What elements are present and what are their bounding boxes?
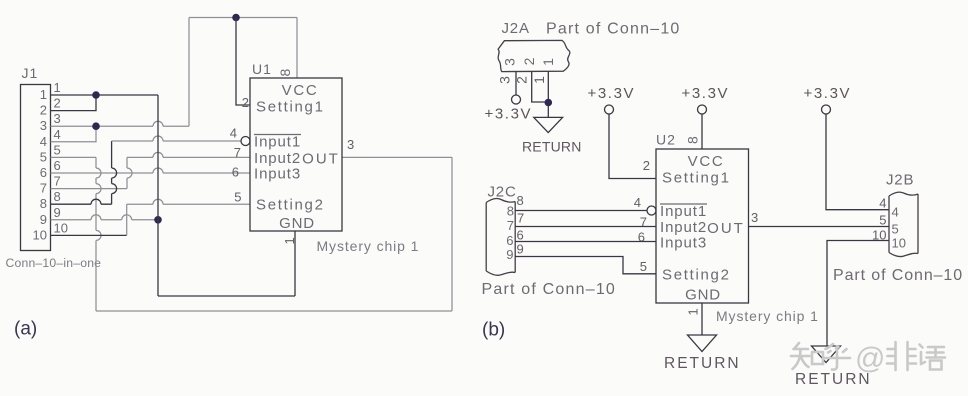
wire +3.3 net riser x=189 xyxy=(188,18,190,127)
svg-text:10: 10 xyxy=(54,220,68,235)
chip U1 pin name Input3 xyxy=(254,166,301,183)
ground triangle RETURN (J2B) xyxy=(812,346,841,363)
J2B value label Part of Conn-10 xyxy=(833,267,963,284)
wire J2A.1 stub down xyxy=(547,72,549,118)
pin number 2 (U2) xyxy=(643,158,650,173)
svg-text:Setting1: Setting1 xyxy=(256,99,325,116)
svg-text:9: 9 xyxy=(506,247,513,262)
svg-text:5: 5 xyxy=(54,142,61,157)
svg-text:2: 2 xyxy=(40,103,47,118)
J2C wire number labels xyxy=(517,193,525,257)
chip U2 pin name Input2 xyxy=(660,219,707,236)
svg-text:1: 1 xyxy=(40,87,47,102)
svg-text:5: 5 xyxy=(892,222,899,237)
connector J2B body xyxy=(889,192,918,256)
chip U2 pin name VCC xyxy=(688,153,725,170)
wire J1.9 to GND net (hops at 96,127) xyxy=(51,215,159,220)
svg-text:J2B: J2B xyxy=(886,172,914,189)
wire GND net vertical x=158 xyxy=(157,95,159,296)
ground label RETURN (U2) xyxy=(664,355,741,372)
chip U1 pin name Input1 with overline xyxy=(254,134,301,151)
junction dot top rail xyxy=(232,14,240,22)
wire Setting1 drop to U1 pin 2 xyxy=(236,18,250,106)
svg-text:6: 6 xyxy=(517,228,524,243)
svg-text:OUT: OUT xyxy=(707,220,745,237)
svg-text:8: 8 xyxy=(517,193,524,208)
svg-text:6: 6 xyxy=(638,230,645,245)
svg-text:8: 8 xyxy=(40,196,47,211)
pin number 5 (U2) xyxy=(640,259,647,274)
svg-text:3: 3 xyxy=(54,111,61,126)
wire Setting2 feed to U1 pin 5 (hop at 158) xyxy=(127,199,250,204)
svg-text:1: 1 xyxy=(686,308,701,315)
svg-text:Input1: Input1 xyxy=(254,134,301,151)
svg-text:9: 9 xyxy=(54,205,61,220)
svg-text:9: 9 xyxy=(517,242,524,257)
chip U1 refdes xyxy=(252,61,272,77)
chip U1 value label Mystery chip 1 xyxy=(317,238,420,254)
svg-text:10: 10 xyxy=(33,227,47,242)
svg-text:6: 6 xyxy=(54,158,61,173)
svg-text:(b): (b) xyxy=(482,320,505,341)
svg-text:3: 3 xyxy=(347,137,354,152)
wire GND net bottom run to U1 GND xyxy=(158,231,295,296)
wire top rail y=17.5 xyxy=(189,17,297,19)
svg-text:VCC: VCC xyxy=(688,153,725,170)
svg-text:Input2: Input2 xyxy=(660,219,707,236)
power label +3.3V (Setting1) xyxy=(588,85,636,102)
figure label (b) xyxy=(482,320,505,341)
svg-text:4: 4 xyxy=(892,205,899,220)
pin number 1 (U2 GND, rotated) xyxy=(686,308,701,315)
J2C value label Part of Conn-10 xyxy=(482,281,617,298)
svg-text:10: 10 xyxy=(892,236,906,251)
wire J2C.8 to U2 pin 4 bubble xyxy=(515,210,647,212)
svg-text:@: @ xyxy=(855,342,885,375)
pin number 5 (U1) xyxy=(234,190,241,205)
wire J1.5 to OUT net xyxy=(51,156,97,158)
J2A pin number labels 3,2,1 (rotated) xyxy=(497,76,548,84)
wire Input1 feed to U1 pin 4 bubble (hop at 158) xyxy=(112,136,241,141)
connector J1 internal pin numbers 1-10 xyxy=(33,87,47,242)
pin number 6 (U2) xyxy=(638,230,645,245)
svg-text:Mystery chip 1: Mystery chip 1 xyxy=(317,238,420,254)
wire J2A.2 stub down and right xyxy=(532,72,549,103)
wire Setting2 riser x=126.7 xyxy=(126,204,128,235)
connector J2A body xyxy=(498,40,570,71)
wire Input1 riser x=111.6 with hops xyxy=(112,141,117,204)
power label +3.3V (J2A) xyxy=(485,106,533,123)
chip U2 refdes xyxy=(656,132,676,148)
chip U1 pin name VCC xyxy=(282,82,319,99)
wire Input2 riser x=127 with hop at w6 xyxy=(127,157,132,188)
svg-text:+3.3V: +3.3V xyxy=(588,85,636,102)
svg-text:6: 6 xyxy=(506,233,513,248)
pin number 7 (U1) xyxy=(234,145,241,160)
wire J2C.9 to U2 pin 5 Setting2 xyxy=(515,257,656,274)
svg-text:4: 4 xyxy=(54,127,61,142)
connector J2B refdes xyxy=(886,172,914,189)
svg-text:4: 4 xyxy=(40,134,47,149)
svg-text:10: 10 xyxy=(872,228,886,243)
wire J1.2 up to J1.1 xyxy=(51,95,97,111)
junction dot pins 1-2 xyxy=(92,91,100,99)
wire +3.3V to U2 pin 8 VCC xyxy=(701,114,703,149)
svg-text:2: 2 xyxy=(643,158,650,173)
svg-text:5: 5 xyxy=(40,149,47,164)
pin number 6 (U1) xyxy=(232,165,239,180)
pin number 4 (U1) xyxy=(230,126,237,141)
svg-text:Conn–10–in–one: Conn–10–in–one xyxy=(6,256,102,270)
chip U2 pin name OUT xyxy=(707,220,745,237)
svg-text:J2C: J2C xyxy=(488,184,517,201)
wire J1.6 straight to U1 Input3 (hops at 158) xyxy=(51,168,251,173)
pin number 4 (U2) xyxy=(634,195,641,210)
pin number 2 (U1) xyxy=(242,95,249,110)
svg-text:5: 5 xyxy=(879,213,886,228)
wire VCC drop to U1 pin 8 xyxy=(296,18,298,79)
ground triangle RETURN (J2A) xyxy=(534,117,563,132)
chip U2 pin 8 number (rotated) xyxy=(685,136,701,144)
svg-text:4: 4 xyxy=(879,196,886,211)
svg-text:6: 6 xyxy=(40,165,47,180)
junction dot J2A pins 1-2 xyxy=(545,99,553,107)
power terminal circle +3.3V (Setting1) xyxy=(605,105,614,114)
J2A internal pin numbers 3,2,1 (rotated) xyxy=(502,57,557,66)
wire OUT net riser x=96 with hops xyxy=(96,157,101,311)
wire J2C.6 to U2 pin 6 xyxy=(515,241,656,243)
wire Input2 feed to U1 pin 7 (hop at 158) xyxy=(127,152,250,157)
inversion bubble U1 pin 4 xyxy=(241,137,250,146)
chip U2 pin name Setting2 xyxy=(662,267,731,284)
svg-text:4: 4 xyxy=(230,126,237,141)
svg-text:U2: U2 xyxy=(656,132,676,148)
ground label RETURN (J2A) xyxy=(522,139,582,155)
wire +3.3V to U2 pin 2 xyxy=(609,114,656,179)
svg-text:5: 5 xyxy=(640,259,647,274)
svg-text:2: 2 xyxy=(521,57,537,65)
svg-text:Input2: Input2 xyxy=(254,150,301,167)
svg-text:6: 6 xyxy=(232,165,239,180)
ground triangle RETURN (U2) xyxy=(688,335,717,352)
pin number 3 (U1 OUT) xyxy=(347,137,354,152)
svg-text:7: 7 xyxy=(40,181,47,196)
svg-text:7: 7 xyxy=(517,211,524,226)
svg-text:Part of Conn–10: Part of Conn–10 xyxy=(546,21,681,38)
junction dot pins 3-4 xyxy=(92,122,100,130)
J2B internal pin numbers xyxy=(892,205,906,251)
svg-text:J2A: J2A xyxy=(502,20,530,37)
connector J1 refdes label xyxy=(22,65,39,81)
power terminal circle +3.3V (J2B) xyxy=(822,105,831,114)
svg-text:RETURN: RETURN xyxy=(664,355,741,372)
svg-text:7: 7 xyxy=(234,145,241,160)
pin number 7 (U2) xyxy=(640,215,647,230)
svg-text:J1: J1 xyxy=(22,65,39,81)
J1 wire number labels 1-10 xyxy=(54,80,68,235)
power label +3.3V (J2B) xyxy=(804,85,852,102)
power label +3.3V (VCC) xyxy=(682,85,730,102)
svg-text:Part of Conn–10: Part of Conn–10 xyxy=(482,281,617,298)
svg-text:U1: U1 xyxy=(252,61,272,77)
wire J2B.10 down to RETURN xyxy=(827,241,889,347)
svg-text:3: 3 xyxy=(751,210,758,225)
svg-text:1: 1 xyxy=(540,58,556,66)
svg-text:VCC: VCC xyxy=(282,82,319,99)
svg-text:RETURN: RETURN xyxy=(522,139,582,155)
chip U2 pin name Input1 with overline xyxy=(660,203,707,220)
svg-text:1: 1 xyxy=(282,237,297,244)
J2B wire number labels xyxy=(872,196,886,243)
power terminal circle +3.3V (VCC) xyxy=(698,105,707,114)
inversion bubble U2 pin 4 xyxy=(647,206,656,215)
wire J1.7 to Input2 riser xyxy=(51,188,128,190)
svg-text:GND: GND xyxy=(279,215,315,232)
pin number 1 (U1 GND, rotated) xyxy=(282,237,297,244)
svg-text:3: 3 xyxy=(40,118,47,133)
wire J1.4 up to J1.3 xyxy=(51,126,97,142)
svg-text:Setting2: Setting2 xyxy=(662,267,731,284)
wire J1.1 to GND net vertical xyxy=(51,94,159,96)
svg-text:8: 8 xyxy=(507,204,514,219)
svg-text:8: 8 xyxy=(685,136,701,144)
wire +3.3V down to J2B.4 xyxy=(826,114,889,210)
svg-text:Setting2: Setting2 xyxy=(256,197,325,214)
chip U2 body xyxy=(656,149,749,303)
wire U2 OUT to J2B.5 xyxy=(749,226,890,228)
wire OUT net bottom run xyxy=(96,157,452,311)
connector J2A labels xyxy=(502,20,681,38)
svg-text:Input3: Input3 xyxy=(254,166,301,183)
svg-text:+3.3V: +3.3V xyxy=(682,85,730,102)
ground label RETURN (J2B) xyxy=(795,371,872,388)
svg-text:5: 5 xyxy=(234,190,241,205)
svg-text:Input1: Input1 xyxy=(660,203,707,220)
pin number 3 (U2 OUT) xyxy=(751,210,758,225)
svg-text:1: 1 xyxy=(531,76,547,84)
watermark zhihu @feiyu xyxy=(791,343,850,370)
svg-text:7: 7 xyxy=(54,174,61,189)
chip U2 pin name Input3 xyxy=(660,235,707,252)
svg-text:7: 7 xyxy=(640,215,647,230)
svg-text:OUT: OUT xyxy=(302,151,340,168)
J2C internal pin numbers xyxy=(506,204,514,263)
svg-text:+3.3V: +3.3V xyxy=(485,106,533,123)
svg-text:8: 8 xyxy=(277,69,293,77)
svg-text:(a): (a) xyxy=(14,319,37,340)
chip U1 pin name Input2 xyxy=(254,150,301,167)
svg-text:8: 8 xyxy=(54,189,61,204)
svg-text:4: 4 xyxy=(634,195,641,210)
connector J2C body xyxy=(486,199,515,276)
chip U1 pin name OUT xyxy=(302,151,340,168)
chip U1 pin 8 number (rotated) xyxy=(277,69,293,77)
op chip U1 body xyxy=(250,78,342,231)
svg-text:Setting1: Setting1 xyxy=(662,170,731,187)
svg-text:1: 1 xyxy=(54,80,61,95)
wire J1.10 to Setting2 riser xyxy=(51,234,127,236)
svg-text:2: 2 xyxy=(242,95,249,110)
svg-text:Input3: Input3 xyxy=(660,235,707,252)
wire J1.8 to Input1 riser xyxy=(51,199,112,204)
connector J2C refdes xyxy=(488,184,517,201)
power terminal circle +3.3V (J2A) xyxy=(512,95,521,104)
junction dot pin9 on GND net xyxy=(154,216,162,224)
chip U2 pin name GND xyxy=(685,287,721,304)
connector J1 xyxy=(21,85,51,251)
wire J2C.7 to U2 pin 7 xyxy=(515,226,656,228)
svg-text:7: 7 xyxy=(507,218,514,233)
wire U2 GND to RETURN xyxy=(701,303,703,335)
svg-text:+3.3V: +3.3V xyxy=(804,85,852,102)
chip U2 value label Mystery chip 1 xyxy=(716,308,819,324)
svg-text:2: 2 xyxy=(54,96,61,111)
svg-text:Part of Conn–10: Part of Conn–10 xyxy=(833,267,963,284)
svg-text:3: 3 xyxy=(502,58,518,66)
figure label (a) xyxy=(14,319,37,340)
svg-text:9: 9 xyxy=(40,212,47,227)
chip U1 pin name Setting2 xyxy=(256,197,325,214)
chip U2 pin name Setting1 xyxy=(662,170,731,187)
svg-text:3: 3 xyxy=(497,76,513,84)
chip U1 pin name Setting1 xyxy=(256,99,325,116)
svg-text:GND: GND xyxy=(685,287,721,304)
wire J1.3 to +3.3 net (hop at x=158) xyxy=(51,121,190,126)
wire J2A.3 stub xyxy=(515,72,517,96)
chip U1 pin name GND xyxy=(279,215,315,232)
J1 value label Conn-10-in-one xyxy=(6,256,102,270)
svg-text:Mystery chip 1: Mystery chip 1 xyxy=(716,308,819,324)
